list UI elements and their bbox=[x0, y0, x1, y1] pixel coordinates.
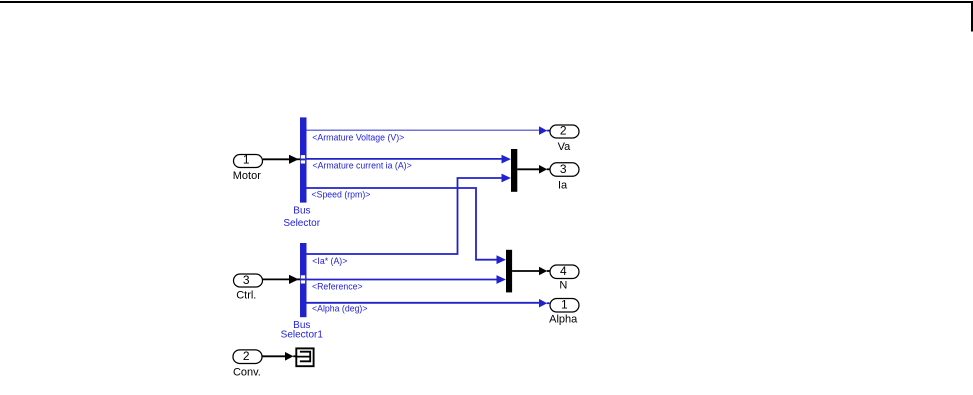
svg-text:2: 2 bbox=[243, 349, 250, 363]
svg-text:3: 3 bbox=[560, 162, 567, 176]
svg-text:N: N bbox=[559, 279, 567, 291]
svg-text:Ctrl.: Ctrl. bbox=[236, 290, 256, 302]
svg-text:2: 2 bbox=[560, 123, 567, 137]
svg-text:<Reference>: <Reference> bbox=[312, 281, 363, 291]
svg-text:Alpha: Alpha bbox=[549, 314, 578, 326]
svg-text:4: 4 bbox=[560, 264, 567, 278]
svg-text:1: 1 bbox=[561, 298, 568, 312]
svg-text:Selector1: Selector1 bbox=[281, 330, 324, 341]
svg-text:<Ia* (A)>: <Ia* (A)> bbox=[312, 256, 347, 266]
svg-text:Selector: Selector bbox=[283, 218, 320, 229]
svg-text:Va: Va bbox=[558, 141, 572, 153]
svg-text:Conv.: Conv. bbox=[233, 367, 261, 379]
svg-text:<Armature Voltage (V)>: <Armature Voltage (V)> bbox=[312, 132, 404, 142]
svg-text:1: 1 bbox=[243, 153, 250, 167]
svg-text:Bus: Bus bbox=[293, 206, 310, 217]
svg-text:<Alpha (deg)>: <Alpha (deg)> bbox=[312, 304, 367, 314]
svg-text:<Armature current ia (A)>: <Armature current ia (A)> bbox=[313, 160, 412, 170]
svg-text:<Speed (rpm)>: <Speed (rpm)> bbox=[312, 190, 371, 200]
svg-text:Motor: Motor bbox=[233, 170, 261, 182]
svg-text:Ia: Ia bbox=[558, 180, 568, 192]
svg-text:3: 3 bbox=[243, 273, 250, 287]
